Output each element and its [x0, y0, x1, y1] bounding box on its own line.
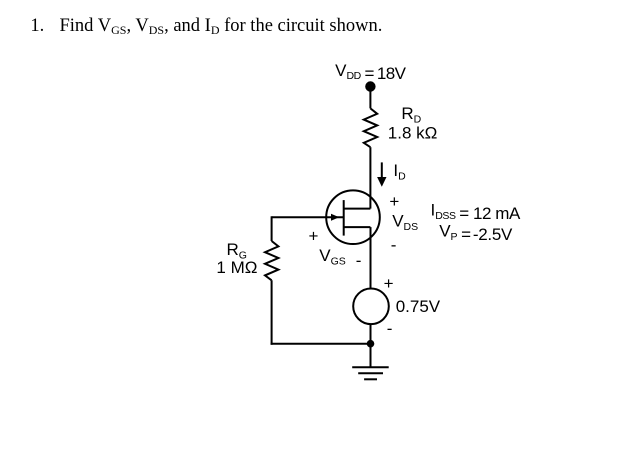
wire VDD dot to RD top [369, 87, 371, 109]
resistor RG [265, 241, 278, 280]
svg-text:VDD=18V: VDD=18V [335, 61, 407, 83]
current arrow ID [381, 162, 383, 179]
wire bottom rail [271, 343, 371, 345]
svg-text:0.75V: 0.75V [396, 297, 441, 316]
svg-text:+: + [309, 227, 319, 246]
transistor Q1 gate arrowhead [331, 214, 339, 221]
wire RG bottom to bottom rail [271, 280, 273, 344]
wire battery bottom to junction [370, 324, 372, 344]
junction dot [367, 340, 375, 348]
svg-text:1.: 1. [30, 16, 44, 36]
wire gate to Q1 [272, 216, 344, 218]
wire gate down left rail top [271, 216, 273, 241]
svg-text:-: - [387, 319, 393, 338]
transistor Q1 channel bar [343, 200, 345, 236]
svg-text:-: - [356, 251, 362, 270]
node VDD terminal dot [365, 81, 375, 91]
svg-text:-: - [391, 236, 397, 255]
svg-text:Find VGS, VDS, and ID for the: Find VGS, VDS, and ID for the circuit sh… [60, 16, 383, 37]
svg-text:+: + [389, 192, 399, 211]
svg-text:1.8 kΩ: 1.8 kΩ [388, 124, 438, 143]
wire RD bottom to JFET drain [369, 147, 371, 208]
transistor Q1 drain lead [344, 208, 371, 210]
svg-text:+: + [384, 274, 394, 293]
transistor Q1 source lead [344, 226, 371, 228]
resistor RD [364, 108, 377, 147]
wire junction to ground [370, 344, 372, 368]
svg-text:VP=-2.5V: VP=-2.5V [439, 222, 513, 244]
svg-text:1 MΩ: 1 MΩ [216, 258, 257, 277]
wire Q1 source down to battery top [370, 227, 372, 288]
transistor Q1 JFET circle [326, 190, 380, 244]
battery V1 0.75V circle [353, 289, 389, 325]
ground [352, 367, 389, 379]
